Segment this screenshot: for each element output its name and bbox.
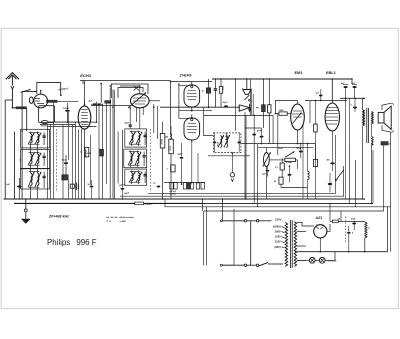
L8/L9 coil b bbox=[138, 133, 140, 143]
svg-text:3Ω: 3Ω bbox=[165, 137, 168, 139]
wire x90.5 down bbox=[90, 135, 92, 185]
capacitor blob det bbox=[252, 134, 256, 136]
component row bottom ef9 bbox=[170, 183, 173, 189]
wire af y147.3 bbox=[258, 146, 314, 148]
capacitor 2pF top bbox=[93, 103, 96, 105]
wire run x118.1 bbox=[117, 131, 119, 183]
tube AZ1 bbox=[314, 225, 327, 238]
wire run x110.2 bbox=[109, 88, 111, 199]
wire cross y124.5 bbox=[40, 124, 75, 126]
resistor vertical right bbox=[268, 105, 271, 113]
wire ebl1 bottom bbox=[331, 131, 333, 152]
svg-text:(180V): (180V) bbox=[273, 225, 281, 229]
L6/L7 terminal bottom bbox=[29, 186, 40, 188]
wire drop x234 bbox=[233, 209, 235, 265]
wire run x273.1 bbox=[272, 115, 274, 143]
wire verticals ef9 bottom bbox=[191, 143, 193, 184]
L6/L7 core arrows bbox=[28, 172, 34, 188]
svg-text:50pF: 50pF bbox=[297, 148, 302, 150]
wire run h x78.5 bbox=[78, 130, 80, 199]
L2/L3 core arrows bbox=[28, 133, 34, 145]
svg-text:AZ1: AZ1 bbox=[315, 216, 323, 220]
resistor dark small bbox=[105, 101, 111, 104]
wire az1 out bbox=[327, 224, 330, 231]
L10/L11 coil b bbox=[137, 153, 139, 164]
legend row 2 bbox=[107, 220, 108, 222]
wire y100.5 mid bbox=[309, 101, 311, 124]
IF transformer shield box dashed bbox=[214, 133, 241, 153]
svg-text:Philips 996 F: Philips 996 F bbox=[47, 238, 97, 247]
trimmer arrow bbox=[21, 90, 31, 93]
switch linkage dashed bbox=[345, 217, 347, 244]
svg-text:• = NSB: • = NSB bbox=[119, 221, 127, 223]
wire y98.3 bbox=[340, 97, 364, 99]
wire run e x68.3 bbox=[67, 112, 69, 160]
capacitor 50uF af bbox=[288, 174, 292, 176]
svg-text:25pF: 25pF bbox=[124, 123, 131, 125]
pilot lamp 2 bbox=[319, 257, 325, 263]
wire run d x63 bbox=[62, 125, 64, 199]
wire run i x81.6 bbox=[81, 129, 83, 199]
L12/L13 core arrows bbox=[129, 172, 135, 183]
band filter box 2 bbox=[21, 149, 50, 168]
resistor row dark one bbox=[187, 183, 190, 189]
capacitor pi 1 bbox=[344, 86, 348, 88]
resistor 40ohm bbox=[70, 184, 74, 188]
mixer bottom leads bbox=[136, 107, 138, 122]
wire run x246 bbox=[245, 115, 247, 198]
resistor R1 anode bbox=[47, 100, 58, 102]
L4/L5 trimmer cap bbox=[43, 155, 46, 157]
tube V1 RF bbox=[34, 94, 48, 108]
output transformer core bbox=[366, 108, 368, 143]
L4/L5 core arrows bbox=[28, 153, 34, 166]
L4/L5 terminal top bbox=[29, 152, 40, 154]
svg-text:1µF: 1µF bbox=[6, 184, 10, 186]
jack symbol bbox=[76, 183, 78, 191]
mains line bottom bbox=[223, 264, 245, 266]
svg-text:L.M.K.U.: L.M.K.U. bbox=[145, 204, 153, 206]
L2/L3 coil a bbox=[31, 134, 33, 143]
capacitor v bbox=[214, 88, 217, 90]
nested corner wires right bbox=[148, 135, 335, 194]
wire run x102.5 bbox=[102, 104, 104, 199]
wire af bottom link bbox=[280, 184, 282, 187]
resistor gray small bbox=[100, 149, 104, 156]
magic eye horn lower bbox=[239, 105, 249, 111]
wire right of mixer bbox=[149, 100, 160, 102]
L12/L13 trimmer cap bbox=[144, 174, 147, 176]
wire mixer drop a bbox=[153, 104, 155, 133]
mains vertical bbox=[250, 221, 252, 265]
L8/L9 terminal bottom bbox=[130, 143, 141, 145]
svg-text:6,3V/0,3A: 6,3V/0,3A bbox=[328, 259, 337, 262]
band filter box 1 bbox=[21, 129, 50, 148]
wire top bus main bbox=[212, 78, 352, 80]
legend dashes row 1 bbox=[107, 216, 110, 218]
resistor +42 bbox=[171, 165, 175, 172]
wire x251.3 down bbox=[250, 89, 252, 115]
wire R1 to ECH3 grid bbox=[57, 100, 78, 102]
svg-text:50000: 50000 bbox=[41, 126, 47, 128]
wire top right drop bbox=[351, 79, 353, 84]
svg-text:0,5MΩ: 0,5MΩ bbox=[286, 162, 292, 164]
L2/L3 trimmer cap bbox=[43, 135, 46, 137]
wire speaker return bbox=[390, 132, 392, 252]
wire ot top bbox=[362, 98, 364, 110]
svg-text:160V: 160V bbox=[275, 230, 281, 234]
wire pot top bbox=[265, 147, 267, 152]
wire coil verticals bbox=[30, 146, 32, 152]
wire 0,5M right bbox=[295, 159, 297, 161]
capacitor blob ef9 bbox=[224, 105, 228, 107]
output transformer primary bbox=[363, 110, 365, 126]
L10/L11 coil a bbox=[131, 153, 133, 164]
wire antenna down bbox=[11, 89, 13, 108]
ground symbol bbox=[21, 219, 31, 224]
bus lines right stack bbox=[203, 202, 374, 204]
tube ECH3 bbox=[78, 106, 91, 129]
wire secondary bottom bbox=[297, 259, 306, 261]
mains switch diagonal bbox=[259, 263, 268, 266]
IFT cap right blob bbox=[237, 141, 241, 143]
wire det long y135.4 bbox=[203, 134, 213, 136]
L12/L13 terminal top bbox=[130, 171, 141, 173]
capacitor 50pF af top bbox=[299, 151, 303, 153]
wire em1 tube top loop bbox=[275, 101, 297, 114]
wire y107.2 bbox=[160, 106, 240, 108]
capacitor 400 dark a bbox=[330, 162, 334, 164]
resistor 30 dark bbox=[206, 88, 210, 93]
svg-text:0,1µF: 0,1µF bbox=[278, 148, 284, 150]
capacitor 400 dark b bbox=[328, 183, 332, 185]
L10/L11 trimmer cap bbox=[143, 155, 146, 157]
wire y100.5 right bbox=[305, 100, 347, 102]
capacitor 4u blob bbox=[157, 186, 161, 188]
switch arrow below funnel bbox=[245, 95, 250, 100]
wire em1 mid bbox=[275, 113, 279, 115]
svg-text:50pF: 50pF bbox=[223, 102, 229, 104]
svg-text:1MΩ: 1MΩ bbox=[279, 110, 284, 112]
coil af bbox=[308, 171, 310, 179]
wire long y122 bbox=[48, 121, 78, 123]
svg-text:EBL1: EBL1 bbox=[326, 71, 336, 75]
svg-text:150pF: 150pF bbox=[63, 108, 70, 110]
L4/L5 coil a bbox=[31, 154, 33, 164]
ground connection bbox=[24, 209, 27, 212]
capacitor pi 2 bbox=[353, 86, 357, 88]
resistor 5000 vertical bbox=[169, 139, 174, 154]
capacitor 1uF left bbox=[17, 186, 21, 188]
band switch linkage dashed left bbox=[56, 129, 58, 192]
wire 2,5M link bbox=[281, 158, 283, 163]
band switch linkage dashed mid bbox=[150, 129, 152, 192]
L8/L9 terminal top bbox=[130, 131, 141, 133]
caps small row left bbox=[90, 186, 94, 188]
IFT coil b bbox=[226, 136, 228, 148]
wire run f x72.3 bbox=[71, 125, 73, 199]
L6/L7 coil a bbox=[31, 173, 33, 186]
magic eye funnel upper bbox=[243, 90, 251, 95]
bus bottom second bbox=[14, 202, 203, 204]
resistor FB dark bbox=[262, 105, 266, 112]
L10/L11 terminal bottom bbox=[129, 164, 140, 166]
box 50000 gray bbox=[62, 175, 68, 180]
wire v x26.7 bbox=[26, 109, 28, 131]
ps bottom bus bbox=[295, 251, 388, 253]
wire run x257.7 bbox=[257, 144, 259, 207]
osc box A bbox=[125, 129, 147, 147]
svg-text:ECH3: ECH3 bbox=[80, 73, 91, 78]
svg-text:(90V): (90V) bbox=[274, 245, 280, 249]
wire osc bank rails bbox=[122, 130, 124, 184]
wire pot to resistor bbox=[269, 159, 285, 161]
wire power left drop a bbox=[203, 211, 205, 265]
output transformer secondary bbox=[371, 112, 373, 124]
L8/L9 trimmer cap bbox=[144, 134, 147, 136]
svg-text:125V: 125V bbox=[275, 235, 281, 239]
wire coil bank left rail bbox=[21, 131, 23, 199]
wire drop 202 bbox=[202, 199, 204, 211]
svg-text:220V: 220V bbox=[274, 218, 281, 222]
field coil choke bbox=[365, 222, 367, 238]
svg-text:2A: 2A bbox=[337, 218, 341, 220]
tube EM1 body bbox=[291, 104, 305, 130]
svg-text:40µF: 40µF bbox=[350, 217, 356, 220]
wire power left drop b bbox=[206, 207, 208, 265]
L8/L9 coil a bbox=[132, 133, 134, 143]
wire grid cap tube1 bbox=[179, 85, 190, 87]
capacitor 5pF bbox=[266, 170, 270, 172]
wire run x99 bbox=[98, 104, 100, 199]
wire em1 drop bbox=[244, 112, 246, 199]
capacitor 50pF mid bbox=[64, 162, 68, 164]
wire det y143.6 bbox=[241, 143, 315, 145]
fuse bbox=[332, 220, 338, 223]
wire run a x47.5 bbox=[47, 125, 49, 199]
switch diagonal bbox=[337, 170, 344, 180]
wire left vertical to ground bus bbox=[4, 100, 6, 199]
wire lamps bbox=[297, 259, 310, 261]
resistor below ebl1 bbox=[314, 124, 318, 132]
svg-text:2×EF9: 2×EF9 bbox=[179, 72, 193, 77]
capacitor grid ebl1 bbox=[319, 95, 323, 97]
wire ech3 to mixer bbox=[91, 105, 131, 107]
L10/L11 terminal top bbox=[129, 151, 140, 153]
wire y128 det bbox=[245, 127, 262, 129]
wire em1 cathode down bbox=[297, 130, 299, 143]
hum coil bbox=[371, 136, 373, 145]
wire antenna to coil bbox=[12, 107, 16, 109]
mixer grid arrow bbox=[128, 93, 146, 109]
wire run x250.7 bbox=[250, 79, 252, 115]
resistor 2,5Mohm bbox=[280, 163, 284, 170]
resistor 1k cathode bbox=[85, 148, 89, 157]
wire pot bottom bbox=[265, 167, 267, 200]
wire row top bbox=[164, 182, 205, 184]
L2/L3 terminal top bbox=[29, 132, 40, 134]
antenna bbox=[6, 73, 19, 80]
wire run g x75.4 bbox=[74, 122, 76, 199]
tube EF9 second bbox=[184, 118, 200, 140]
wire bus echo3 bbox=[80, 80, 171, 82]
IFT coil a bbox=[220, 136, 222, 148]
L6/L7 trimmer cap bbox=[43, 175, 46, 177]
resistor 1Mohm horizontal bbox=[279, 112, 287, 115]
svg-text:110V: 110V bbox=[275, 240, 281, 244]
wire mixer drop b bbox=[157, 106, 159, 139]
crossed wires at mixer top bbox=[134, 86, 140, 91]
resistor 20000 vertical bbox=[160, 134, 165, 149]
wire secondary top to AZ1 bbox=[297, 222, 314, 226]
wire v x22 bbox=[21, 92, 23, 132]
svg-text:EM1: EM1 bbox=[295, 71, 303, 75]
wire mixer top bbox=[120, 86, 140, 94]
wire ef9 top bbox=[171, 81, 212, 83]
resistor right af bbox=[313, 159, 317, 166]
wire ech3 top up bbox=[84, 81, 86, 101]
L2/L3 terminal bottom bbox=[29, 143, 40, 145]
L6/L7 terminal top bbox=[29, 171, 40, 173]
svg-text:2pF: 2pF bbox=[88, 101, 93, 103]
osc box C bbox=[125, 169, 147, 185]
L4/L5 terminal bottom bbox=[29, 164, 40, 166]
grid cap V1 bbox=[40, 91, 42, 95]
jack circle bbox=[230, 173, 234, 177]
wire drop 165 bbox=[164, 199, 166, 207]
mains line top bbox=[223, 220, 245, 222]
speaker frame bottom bbox=[382, 125, 391, 132]
wire secondary mid bbox=[297, 231, 306, 233]
wire em1 side down bbox=[302, 125, 304, 199]
power transformer secondary bbox=[294, 222, 296, 267]
tube mixer H bbox=[131, 94, 150, 108]
wire x253.2 down bbox=[252, 94, 254, 116]
pilot lamp 1 bbox=[309, 257, 315, 263]
power transformer primary bbox=[285, 222, 287, 266]
wire run x203.6 bbox=[203, 107, 205, 135]
wire drop x222.5 bbox=[222, 199, 224, 221]
volume pot wiper arrow bbox=[263, 152, 271, 166]
wire coil bank frame bbox=[14, 132, 16, 199]
wire run b x50.6 bbox=[50, 125, 52, 199]
L8/L9 core arrows bbox=[129, 132, 135, 145]
svg-text:= Wellenschalter: = Wellenschalter bbox=[119, 216, 135, 219]
wire cross y126.5 bbox=[48, 126, 97, 128]
wire verticals mid bbox=[100, 84, 102, 103]
power transformer core bbox=[289, 220, 291, 268]
L12/L13 terminal bottom bbox=[130, 181, 141, 183]
padder trimmer oval bbox=[41, 121, 48, 124]
resistor 6ohm bbox=[381, 142, 388, 145]
antenna coil L1 bbox=[16, 107, 27, 109]
wire ps risers bbox=[340, 211, 342, 221]
wire run x106.3 bbox=[105, 104, 107, 184]
bus bottom main bbox=[4, 198, 365, 200]
wire az1 down bbox=[319, 238, 321, 252]
junction dots bbox=[12, 107, 14, 109]
L12/L13 coil a bbox=[132, 173, 134, 181]
L4/L5 coil b bbox=[37, 154, 39, 164]
volume potentiometer bbox=[285, 158, 296, 161]
L12/L13 coil b bbox=[138, 173, 140, 181]
wire loop top bbox=[37, 83, 61, 96]
resistor 1000 bbox=[219, 86, 222, 93]
wire run c x53.7 bbox=[53, 103, 55, 199]
svg-text:2,5: 2,5 bbox=[275, 167, 278, 169]
volume potentiometer body bbox=[264, 153, 270, 167]
wire grid cap tube2 bbox=[179, 117, 190, 119]
wire below ift bbox=[208, 155, 250, 157]
L10/L11 core arrows bbox=[128, 152, 134, 166]
svg-text:50pF: 50pF bbox=[62, 159, 68, 161]
wire run x114.3 bbox=[113, 90, 115, 199]
capacitor tone bbox=[353, 107, 357, 109]
svg-text:50: 50 bbox=[274, 181, 276, 183]
osc box B bbox=[124, 149, 147, 168]
tube EF9 first bbox=[184, 85, 200, 107]
svg-text:20000: 20000 bbox=[162, 138, 164, 144]
antenna lead-in V bbox=[11, 86, 14, 89]
wire run x254.2 bbox=[253, 115, 255, 203]
IFT arrows bbox=[218, 135, 224, 148]
capacitor 150pF bbox=[65, 110, 70, 112]
svg-text:ZF=468 kHz: ZF=468 kHz bbox=[48, 214, 69, 218]
tube EBL1 bbox=[325, 103, 339, 131]
IFT cap left blob bbox=[213, 141, 217, 143]
speaker bbox=[378, 112, 384, 123]
wire y84 loop bbox=[111, 84, 148, 98]
wire bus to IFT bbox=[234, 79, 236, 131]
wire secondary low bbox=[297, 245, 306, 247]
band filter box 3 bbox=[21, 168, 50, 189]
capacitor 4uF ps bbox=[347, 232, 351, 234]
box padder bbox=[39, 106, 55, 123]
bus box LMKU bbox=[135, 202, 144, 205]
wire run x277.8 bbox=[277, 114, 279, 155]
speaker frame top bbox=[382, 103, 391, 110]
wire det y115.4 bbox=[204, 114, 274, 116]
wire verticals osc bbox=[162, 122, 164, 134]
wire y110.7 bbox=[179, 110, 212, 112]
resistor 1,5k bbox=[279, 177, 283, 184]
wire corner 387.5 bbox=[387, 207, 389, 252]
L2/L3 coil b bbox=[37, 134, 39, 143]
wire y87.5 loop bbox=[118, 88, 143, 99]
L6/L7 coil b bbox=[37, 173, 39, 186]
svg-text:400: 400 bbox=[327, 159, 330, 162]
